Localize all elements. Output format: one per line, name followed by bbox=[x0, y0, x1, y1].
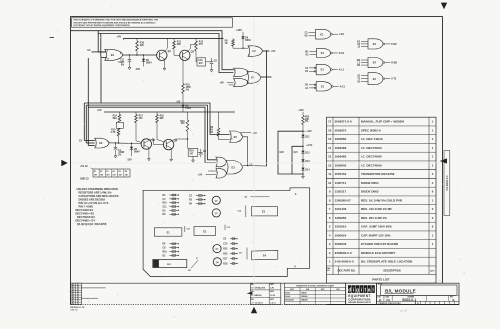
title band separator line bbox=[71, 282, 443, 284]
nor gate E3b bbox=[95, 138, 110, 148]
svg-text:DRB 102: DRB 102 bbox=[71, 309, 78, 311]
svg-text:C14: C14 bbox=[198, 59, 203, 62]
wire gate bracket drop to row2 rail bbox=[100, 58, 102, 103]
wire Q2 emitter to ground bbox=[163, 59, 165, 66]
svg-text:+5V: +5V bbox=[198, 173, 203, 176]
svg-text:E1: E1 bbox=[94, 171, 96, 173]
capacitor C8 row2 bbox=[198, 151, 201, 153]
diode D6 bbox=[131, 143, 133, 147]
svg-text:10: 10 bbox=[230, 138, 232, 140]
ground under C11 bbox=[129, 65, 131, 67]
band rule lines bbox=[82, 287, 106, 289]
wire E2 output bbox=[263, 50, 270, 52]
svg-text:A-C1: A-C1 bbox=[340, 85, 346, 88]
wire into E2 bbox=[233, 47, 248, 49]
svg-text:12-20: 12-20 bbox=[270, 295, 275, 297]
resistor R14 bbox=[119, 112, 121, 114]
svg-text:DRN.: DRN. bbox=[251, 284, 255, 286]
svg-text:+5V: +5V bbox=[117, 35, 122, 39]
and gate E3d-a bbox=[216, 157, 226, 167]
or gate E4 bbox=[247, 72, 261, 84]
layout capacitor C15 bbox=[184, 226, 186, 232]
svg-text:E4: E4 bbox=[113, 170, 115, 173]
resistor R18 bbox=[156, 112, 158, 114]
spare gate E4a2 bbox=[368, 39, 383, 49]
conversion chart bbox=[285, 283, 346, 304]
svg-text:3: 3 bbox=[107, 141, 108, 143]
svg-text:16: 16 bbox=[328, 128, 332, 132]
svg-text:DEC PART NO.: DEC PART NO. bbox=[338, 269, 356, 272]
svg-text:10: 10 bbox=[107, 59, 109, 61]
resistor R16 box bbox=[188, 148, 198, 156]
svg-text:RES. 413 1/4W 1% MF: RES. 413 1/4W 1% MF bbox=[361, 207, 392, 211]
svg-text:5009246: 5009246 bbox=[335, 242, 347, 246]
node +4.5V bbox=[302, 146, 303, 147]
and gate E3d-b bbox=[216, 169, 226, 178]
capacitor C14 box bbox=[197, 58, 206, 66]
resistor R15 bbox=[117, 128, 120, 136]
registration arrow bottom bbox=[251, 307, 257, 313]
svg-text:K.GONSALVES: K.GONSALVES bbox=[251, 287, 265, 290]
svg-text:5: 5 bbox=[235, 84, 236, 86]
wire row2 bus line 1 bbox=[84, 103, 229, 134]
svg-text:I.C. DEC74H00: I.C. DEC74H00 bbox=[361, 163, 382, 167]
svg-text:5%: 5% bbox=[210, 132, 213, 134]
and gate E4b bbox=[234, 78, 249, 86]
svg-text:UNLESS OTHERWISE INDICATED: UNLESS OTHERWISE INDICATED bbox=[77, 187, 118, 191]
wire top bus inner bbox=[98, 34, 234, 73]
svg-text:J-E2: J-E2 bbox=[339, 34, 345, 36]
svg-text:E3: E3 bbox=[232, 165, 236, 169]
svg-text:THIS SCHEMATIC IS FURNISHED ON: THIS SCHEMATIC IS FURNISHED ONLY FOR TES… bbox=[73, 19, 158, 22]
svg-text:1909486: 1909486 bbox=[335, 146, 347, 150]
svg-text:E3: E3 bbox=[111, 53, 115, 57]
transistor Q2 bbox=[157, 50, 167, 60]
wire R11 to Q3 base bbox=[173, 49, 175, 55]
svg-text:5%: 5% bbox=[186, 90, 189, 92]
svg-text:2N4258: 2N4258 bbox=[301, 299, 308, 302]
wire +5V rail row1 bbox=[124, 37, 224, 39]
ground under C1 bbox=[115, 154, 117, 156]
svg-text:1301610: 1301610 bbox=[335, 225, 347, 229]
diode D5 bbox=[143, 55, 145, 59]
svg-text:1000024: 1000024 bbox=[335, 233, 347, 237]
title inner box bbox=[381, 285, 457, 295]
registration arrow top bbox=[441, 3, 447, 10]
svg-text:+5V: +5V bbox=[220, 81, 225, 84]
svg-text:13: 13 bbox=[328, 155, 332, 159]
wire +5V rail row2 bbox=[104, 111, 235, 113]
resistor R20 ladder bbox=[302, 116, 305, 125]
registration arrow left bbox=[61, 160, 67, 166]
svg-text:PRINTED CIRCUIT REV.: PRINTED CIRCUIT REV. bbox=[379, 303, 402, 305]
svg-text:D12: D12 bbox=[305, 153, 310, 155]
ground under C8 bbox=[211, 64, 213, 68]
wire row2 bus line 3 bbox=[88, 107, 216, 162]
svg-text:CAP. .01MF 100V 20%: CAP. .01MF 100V 20% bbox=[361, 225, 392, 229]
svg-text:C17: C17 bbox=[239, 253, 242, 255]
svg-text:+20V: +20V bbox=[236, 29, 242, 32]
svg-text:4.7K: 4.7K bbox=[111, 131, 116, 134]
svg-text:C16: C16 bbox=[238, 211, 241, 213]
layout capacitor C13 bbox=[224, 225, 226, 230]
svg-text:+5V: +5V bbox=[252, 132, 257, 135]
svg-text:8: 8 bbox=[241, 135, 242, 137]
svg-text:E4: E4 bbox=[373, 61, 377, 65]
svg-text:MODULE ECO HISTORY: MODULE ECO HISTORY bbox=[361, 251, 395, 255]
svg-text:QTY.: QTY. bbox=[430, 270, 435, 272]
layout handle bar bbox=[153, 260, 187, 268]
svg-text:17: 17 bbox=[328, 120, 332, 124]
svg-text:D664: D664 bbox=[146, 61, 152, 64]
nand gate E2 bbox=[248, 46, 263, 57]
svg-text:1-5-71: 1-5-71 bbox=[270, 303, 275, 305]
wire E4 output bbox=[261, 76, 272, 78]
wire E3c output down bbox=[243, 137, 248, 166]
wire E2 output drop bbox=[266, 51, 268, 166]
spare gate E1b bbox=[317, 48, 331, 57]
svg-text:-15V: -15V bbox=[127, 158, 133, 161]
svg-text:ETCHED CIRCUIT BOARD: ETCHED CIRCUIT BOARD bbox=[361, 242, 399, 246]
svg-text:5: 5 bbox=[217, 172, 218, 174]
svg-text:C21: C21 bbox=[294, 152, 299, 154]
resistor R17 bbox=[135, 112, 137, 114]
svg-text:5009371-0-0: 5009371-0-0 bbox=[335, 120, 352, 124]
wire Q1 to Q2 base bbox=[149, 139, 154, 141]
nand gate E3c bbox=[230, 131, 243, 143]
layout transistor Q4 circle bbox=[213, 258, 221, 266]
svg-text:1909485: 1909485 bbox=[335, 155, 347, 159]
layout capacitor C17 bbox=[246, 248, 248, 260]
svg-text:DESCRIPTION: DESCRIPTION bbox=[383, 269, 400, 272]
svg-text:CIRCUITS ARE PROPRIETARY IN NA: CIRCUITS ARE PROPRIETARY IN NATURE AND S… bbox=[73, 21, 156, 24]
wire long drop left to row2 bbox=[87, 58, 89, 107]
svg-text:DIODES ARE DEC662: DIODES ARE DEC662 bbox=[79, 198, 106, 202]
svg-text:1905660: 1905660 bbox=[335, 137, 347, 141]
svg-text:SPEC W302-0: SPEC W302-0 bbox=[361, 128, 381, 132]
svg-text:COPYRIGHT 1971 BY DIGITAL EQUI: COPYRIGHT 1971 BY DIGITAL EQUIPMENT CORP… bbox=[73, 24, 130, 27]
change mark arrow bbox=[247, 292, 253, 295]
diode D4 bbox=[241, 36, 244, 39]
wire top bus outer bbox=[71, 31, 234, 70]
trimmer box bbox=[116, 122, 123, 128]
svg-text:CORPORATION: CORPORATION bbox=[348, 297, 370, 301]
node +10V bbox=[302, 131, 303, 132]
capacitor C11 bbox=[129, 55, 131, 60]
svg-text:C20: C20 bbox=[280, 152, 285, 154]
wire E3b output line bbox=[108, 142, 141, 145]
svg-text:E1: E1 bbox=[321, 84, 325, 88]
wire Q2 collector bbox=[164, 48, 167, 52]
diode D14 bbox=[302, 162, 304, 168]
svg-text:D11: D11 bbox=[305, 137, 310, 139]
layout transistor Q1 circle bbox=[212, 209, 220, 217]
resistor R13 bbox=[195, 38, 197, 41]
svg-text:PIN 14=+5V ON ALL IC'S: PIN 14=+5V ON ALL IC'S bbox=[79, 201, 109, 205]
svg-text:E3: E3 bbox=[234, 135, 238, 139]
capacitor C20 loop bbox=[278, 131, 303, 174]
svg-text:GND C2: GND C2 bbox=[80, 178, 89, 180]
diode D11 bbox=[301, 135, 304, 138]
svg-text:82K: 82K bbox=[113, 118, 118, 120]
wire Q4 collector to R19 bbox=[171, 139, 175, 141]
transistor Q3 bbox=[180, 50, 190, 60]
svg-text:2: 2 bbox=[249, 55, 250, 57]
svg-text:-15V: -15V bbox=[135, 68, 141, 71]
resistor R10 bbox=[136, 38, 138, 41]
ground ladder bbox=[302, 174, 304, 176]
svg-text:E6: E6 bbox=[125, 171, 127, 173]
svg-text:RES. 264 1/4W 1%: RES. 264 1/4W 1% bbox=[361, 216, 387, 220]
or gate E3d bbox=[226, 161, 242, 175]
svg-text:1300365-07: 1300365-07 bbox=[335, 198, 351, 202]
margin vertical number strip bbox=[444, 151, 450, 216]
svg-text:5%: 5% bbox=[118, 155, 121, 157]
svg-text:1105714: 1105714 bbox=[335, 181, 347, 185]
svg-text:5%: 5% bbox=[305, 121, 308, 123]
svg-text:TRANSISTOR DEC4258: TRANSISTOR DEC4258 bbox=[361, 172, 395, 176]
scan speckles bbox=[314, 12, 317, 15]
resistor R6 bbox=[232, 38, 234, 39]
svg-text:11: 11 bbox=[328, 172, 331, 176]
scan creases bbox=[253, 17, 255, 304]
svg-text:C15: C15 bbox=[186, 229, 189, 231]
layout transistor Q3 circle bbox=[213, 245, 221, 253]
svg-text:DEC4258: DEC4258 bbox=[285, 299, 293, 302]
svg-text:3: 3 bbox=[261, 49, 262, 51]
svg-text:5%: 5% bbox=[121, 64, 124, 66]
svg-text:1301446: 1301446 bbox=[335, 207, 347, 211]
svg-text:+5V: +5V bbox=[176, 102, 181, 104]
svg-text:8: 8 bbox=[120, 53, 121, 55]
and gate E4a bbox=[234, 68, 249, 76]
wire E3a output bbox=[122, 54, 157, 56]
svg-text:1105317: 1105317 bbox=[335, 190, 347, 194]
svg-text:12: 12 bbox=[328, 163, 332, 167]
resistor R12 on Q3 emitter bbox=[182, 84, 185, 94]
spare gate E1a bbox=[316, 29, 331, 39]
svg-text:E3: E3 bbox=[106, 171, 108, 173]
svg-text:PIN 7 =GND: PIN 7 =GND bbox=[79, 205, 94, 209]
title block bbox=[377, 283, 460, 304]
svg-text:J1: J1 bbox=[196, 258, 198, 260]
svg-text:g: g bbox=[356, 287, 359, 293]
svg-text:D664: D664 bbox=[134, 151, 140, 154]
svg-text:I.C. DEC74H60: I.C. DEC74H60 bbox=[361, 155, 382, 159]
wire drop to gate E3a input A bbox=[97, 31, 99, 52]
parts list table bbox=[327, 117, 437, 283]
svg-text:+5V A2: +5V A2 bbox=[80, 165, 88, 168]
svg-text:9: 9 bbox=[230, 134, 231, 136]
sheet bottom edge rough bbox=[71, 304, 460, 306]
transistor Q1 bbox=[141, 139, 151, 149]
wire Q4 emitter ground bbox=[170, 148, 172, 157]
svg-text:J.T. 12-16-70: J.T. 12-16-70 bbox=[251, 303, 262, 305]
svg-text:5009372: 5009372 bbox=[335, 128, 347, 132]
svg-text:d: d bbox=[348, 287, 351, 293]
svg-text:DEC74H40=E1: DEC74H40=E1 bbox=[76, 208, 94, 212]
svg-text:E4: E4 bbox=[373, 77, 377, 81]
margin tick left bbox=[50, 37, 55, 39]
svg-text:E3: E3 bbox=[99, 141, 103, 145]
sheet border frame bbox=[71, 15, 443, 17]
svg-text:E2: E2 bbox=[100, 171, 102, 173]
IC power table strip bbox=[93, 169, 130, 177]
resistor R11 bbox=[173, 38, 175, 41]
wire row2 bus line 2 bbox=[86, 105, 216, 160]
svg-text:W1: W1 bbox=[188, 270, 191, 272]
svg-text:C13: C13 bbox=[227, 227, 230, 229]
svg-text:+5V: +5V bbox=[97, 108, 102, 112]
svg-text:D14: D14 bbox=[305, 169, 310, 172]
svg-text:CS B302-0-1: CS B302-0-1 bbox=[445, 175, 449, 191]
svg-text:p 1-11: p 1-11 bbox=[400, 309, 408, 313]
layout IC E2 box bbox=[194, 227, 216, 236]
svg-text:10: 10 bbox=[328, 181, 332, 185]
module outline bbox=[143, 188, 310, 277]
wire drop to gate E3a input B bbox=[100, 34, 102, 58]
svg-text:1905640: 1905640 bbox=[335, 163, 347, 167]
signature block bbox=[250, 283, 280, 304]
svg-text:I.C. DEC 74H40: I.C. DEC 74H40 bbox=[361, 137, 383, 141]
diode D12 bbox=[302, 144, 304, 151]
svg-text:0-1 C/L: 0-1 C/L bbox=[79, 307, 86, 309]
wire Q3 collector to R13 bbox=[187, 49, 190, 52]
diode D2 on emitter chain bbox=[182, 103, 184, 105]
svg-text:+4.5V: +4.5V bbox=[306, 144, 313, 147]
svg-text:DIODE D664: DIODE D664 bbox=[361, 181, 379, 185]
svg-text:B/L CROSSPLATE HOLE LOCATION: B/L CROSSPLATE HOLE LOCATION bbox=[361, 260, 412, 264]
svg-text:Q1,Q2,Q3,Q4 =DEC4258: Q1,Q2,Q3,Q4 =DEC4258 bbox=[77, 222, 107, 226]
svg-text:E4: E4 bbox=[373, 42, 377, 46]
svg-text:+5V: +5V bbox=[271, 50, 276, 53]
svg-text:MANUAL, FLIP CHIP + W302M: MANUAL, FLIP CHIP + W302M bbox=[361, 120, 404, 124]
layout IC E1 box bbox=[154, 228, 182, 236]
capacitor C1 bbox=[115, 143, 117, 147]
svg-text:D-K1: D-K1 bbox=[339, 53, 345, 55]
svg-text:E1: E1 bbox=[320, 32, 324, 36]
svg-text:R16: R16 bbox=[189, 151, 194, 153]
svg-text:CAPACITORS ARE MFD,100V,5%: CAPACITORS ARE MFD,100V,5% bbox=[79, 194, 120, 198]
layout jumper J1 bbox=[191, 260, 198, 268]
wire drops to gate E3b inputs bbox=[83, 103, 85, 141]
spare gate E1c bbox=[316, 64, 330, 74]
svg-text:CAP. 560PF 12V 10%: CAP. 560PF 12V 10% bbox=[361, 233, 391, 237]
svg-text:14: 14 bbox=[328, 146, 332, 150]
parts list header row bbox=[327, 274, 437, 276]
svg-text:P-N2: P-N2 bbox=[391, 44, 397, 46]
svg-text:TRANSISTOR & DIODE CONVERSION: TRANSISTOR & DIODE CONVERSION CHART bbox=[296, 284, 335, 287]
svg-text:A-L2: A-L2 bbox=[339, 69, 345, 72]
svg-text:B/L MODULE: B/L MODULE bbox=[385, 288, 416, 293]
svg-text:+10V: +10V bbox=[306, 131, 312, 133]
svg-text:E5: E5 bbox=[119, 171, 121, 173]
svg-text:D664: D664 bbox=[186, 107, 192, 110]
svg-text:15: 15 bbox=[328, 137, 332, 141]
svg-text:PARTS LIST: PARTS LIST bbox=[372, 278, 389, 282]
revision grid bbox=[71, 283, 82, 304]
spare gate E4c2 bbox=[368, 73, 383, 85]
layout capacitor C16 bbox=[245, 206, 247, 218]
ground under R16 bbox=[192, 156, 194, 158]
svg-text:1505153: 1505153 bbox=[335, 172, 347, 176]
capacitor C21 loop bbox=[292, 146, 303, 174]
proprietary notice box bbox=[72, 18, 233, 27]
margin arrow bbox=[440, 158, 447, 163]
layout transistor Q2 circle bbox=[212, 196, 220, 204]
svg-text:R. MARSH: R. MARSH bbox=[251, 294, 261, 297]
spare gate E4b2 bbox=[368, 58, 383, 68]
svg-text:9: 9 bbox=[107, 50, 108, 52]
svg-text:RESISTORS ARE 1/4W; 5%: RESISTORS ARE 1/4W; 5% bbox=[79, 191, 113, 195]
layout IC E3 box bbox=[252, 207, 278, 216]
svg-text:DIODE D662: DIODE D662 bbox=[361, 190, 379, 194]
wire Q3 emitter long drop bbox=[182, 60, 184, 84]
spare gate E1d bbox=[316, 82, 331, 91]
svg-text:I.C. DEC74H53: I.C. DEC74H53 bbox=[361, 146, 382, 150]
svg-text:6: 6 bbox=[240, 163, 241, 165]
svg-text:a: a bbox=[368, 287, 371, 293]
svg-text:6: 6 bbox=[258, 74, 259, 76]
title size code number row bbox=[383, 295, 385, 301]
layout IC E4 box bbox=[252, 250, 278, 259]
svg-text:9406630-0-0: 9406630-0-0 bbox=[335, 251, 352, 255]
svg-text:1K: 1K bbox=[225, 43, 228, 45]
svg-text:V-T2: V-T2 bbox=[391, 79, 397, 81]
or gate E3a bbox=[105, 49, 123, 60]
svg-text:1: 1 bbox=[95, 140, 96, 142]
svg-text:1N645: 1N645 bbox=[301, 292, 307, 295]
svg-text:1: 1 bbox=[249, 47, 250, 49]
svg-text:R-M2: R-M2 bbox=[391, 63, 397, 65]
svg-text:DEC74H53=E2: DEC74H53=E2 bbox=[77, 215, 95, 219]
svg-text:DEC74H60 = E4: DEC74H60 = E4 bbox=[76, 219, 96, 223]
svg-text:1300260: 1300260 bbox=[335, 216, 347, 220]
svg-text:+15V: +15V bbox=[298, 110, 304, 112]
wire E3d output L2 bbox=[243, 165, 267, 168]
svg-text:ENG.: ENG. bbox=[251, 299, 255, 301]
wire Q1 emitter ground bbox=[148, 148, 150, 157]
capacitor C8 bbox=[206, 61, 212, 63]
diode D13 bbox=[302, 153, 304, 159]
svg-text:.047: .047 bbox=[198, 62, 203, 65]
wire E3c power pin bbox=[241, 132, 252, 134]
resistor R19 bbox=[187, 112, 189, 120]
svg-text:5-05-0000-0-0: 5-05-0000-0-0 bbox=[335, 260, 354, 264]
svg-text:E1: E1 bbox=[321, 68, 325, 72]
svg-text:E1: E1 bbox=[321, 51, 325, 55]
svg-text:DEC74H00 =E3: DEC74H00 =E3 bbox=[76, 212, 95, 216]
transistor Q2 row2 bbox=[163, 139, 173, 149]
svg-text:D664: D664 bbox=[245, 39, 251, 42]
resistor R9 into E3c bbox=[218, 112, 220, 128]
svg-text:2: 2 bbox=[95, 146, 96, 148]
digital logo block bbox=[346, 283, 377, 304]
